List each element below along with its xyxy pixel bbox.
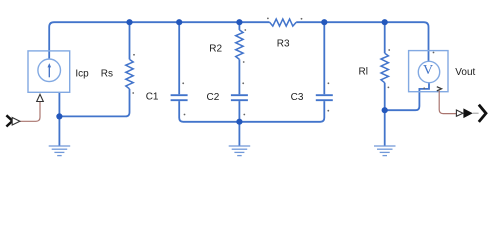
svg-text:V: V	[423, 63, 433, 78]
svg-text:C3: C3	[291, 92, 304, 103]
svg-text:R3: R3	[277, 38, 290, 49]
svg-text:Rs: Rs	[101, 68, 113, 79]
svg-text:Vout: Vout	[455, 67, 475, 78]
svg-text:C1: C1	[146, 92, 159, 103]
svg-text:C2: C2	[207, 92, 220, 103]
svg-text:Icp: Icp	[75, 68, 89, 79]
svg-text:Rl: Rl	[359, 67, 368, 78]
svg-text:R2: R2	[209, 44, 222, 55]
